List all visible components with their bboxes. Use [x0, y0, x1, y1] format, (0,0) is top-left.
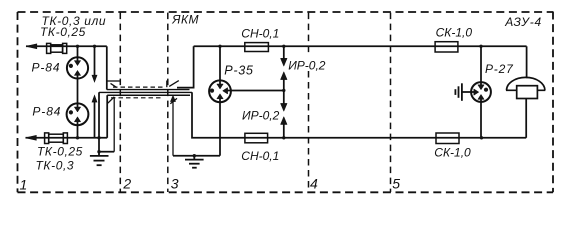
arrester P-35 (three electrode)	[209, 80, 231, 102]
svg-text:Р-84: Р-84	[32, 105, 61, 119]
heat coil TK bottom (fuse with end caps)	[45, 133, 68, 144]
arrester P-84 (upper)	[67, 46, 88, 107]
svg-text:ТК-0,25: ТК-0,25	[37, 144, 83, 158]
node: top wire / arrester P-35	[218, 45, 221, 48]
spark gap IR-0,2 upper	[281, 46, 288, 90]
section divider 3|4	[308, 13, 310, 192]
svg-text:Р-84: Р-84	[32, 60, 61, 74]
fuse SN-0,1 bottom	[245, 133, 268, 143]
wire: stub with up arrow (to station, bottom)	[94, 102, 96, 138]
wire: down to P-35	[219, 46, 221, 85]
wire: top-left corner down into cable	[106, 46, 108, 89]
svg-text:ИР-0,2: ИР-0,2	[242, 108, 280, 122]
cable shield lower-right termination with arrow	[172, 99, 174, 156]
svg-text:2: 2	[122, 176, 131, 192]
node: top wire / down arrow	[93, 45, 96, 48]
section frame outer dashed border	[18, 12, 554, 193]
node: top wire / spark gap column	[282, 45, 285, 48]
svg-text:СК-1,0: СК-1,0	[436, 26, 473, 40]
wire: top line section 3-5	[194, 45, 527, 47]
ground bus section 3	[173, 155, 220, 157]
svg-text:ТК-0,25: ТК-0,25	[40, 25, 86, 39]
spark gap IR-0,2 lower	[281, 90, 288, 137]
svg-text:СН-0,1: СН-0,1	[241, 26, 279, 40]
arrow to line (left, top)	[26, 44, 37, 49]
svg-text:1: 1	[20, 177, 28, 193]
heat coil TK top (fuse with end caps)	[47, 43, 67, 53]
svg-text:4: 4	[310, 175, 318, 191]
cable pair wire c (lower row)	[107, 94, 190, 96]
wire: cable to top line of YAKM	[177, 46, 194, 87]
wire: bottom line section 1	[26, 137, 108, 139]
wire: stub with down arrow (to station, top)	[94, 46, 96, 75]
ground section 1	[90, 152, 109, 166]
cable shield lower (dashed)	[111, 97, 161, 99]
section divider 4|5	[390, 13, 392, 192]
arrester P-27 (three electrode)	[471, 82, 491, 102]
arrow to line (left, bottom)	[26, 135, 37, 140]
wire: down to P-27	[480, 46, 482, 86]
fuse SK-1,0 top	[435, 42, 458, 52]
cable shield upper-left termination	[108, 80, 121, 82]
svg-text:ИР-0,2: ИР-0,2	[288, 58, 326, 72]
ground link section 1	[99, 151, 114, 153]
wire: top line section 1	[26, 45, 107, 47]
wire: bottom line section 3-5	[192, 92, 526, 138]
wire: P-35 bottom to ground bus	[219, 99, 221, 156]
cable shield upper (dashed)	[113, 86, 166, 88]
node: bottom wire / arrester P-84	[76, 136, 79, 139]
node: top wire / arrester P-84	[76, 45, 79, 48]
section divider 1|2	[119, 13, 121, 192]
wire: P-27 to side ground	[462, 91, 474, 93]
label IR-0,2 upper	[288, 58, 328, 72]
svg-text:СК-1,0: СК-1,0	[434, 146, 471, 160]
node: bottom wire / cable pair wire	[97, 136, 100, 139]
cable pair wire c left drop	[106, 95, 108, 138]
svg-text:АЗУ-4: АЗУ-4	[504, 15, 542, 29]
ground section 3	[185, 156, 204, 168]
wire: P-27 bottom to bottom line	[480, 99, 482, 138]
node: top wire / arrester P-27	[479, 45, 482, 48]
cable pair wire a (upper row)	[107, 89, 190, 91]
svg-text:Р-35: Р-35	[224, 64, 254, 78]
wire: P-35 middle electrode to spark gaps	[227, 90, 283, 92]
arrester P-84 (lower)	[67, 103, 89, 137]
svg-text:Р-27: Р-27	[485, 62, 514, 76]
svg-text:ТК-0,3: ТК-0,3	[36, 158, 75, 172]
telephone receiver	[506, 77, 545, 98]
wire: telephone to bottom line	[525, 99, 527, 138]
cable pair wire b left drop to bottom wire and ground	[98, 92, 100, 151]
svg-text:5: 5	[392, 175, 400, 191]
section divider 2|3	[167, 13, 169, 192]
svg-text:3: 3	[171, 176, 179, 192]
cable shield upper-right termination	[166, 81, 168, 88]
fuse SK-1,0 bottom	[436, 133, 459, 144]
cable pair wire b (middle row)	[99, 91, 192, 93]
wire: top line corner down to telephone	[526, 46, 528, 78]
ground (sideways) at P-27	[455, 83, 462, 101]
svg-text:СН-0,1: СН-0,1	[241, 149, 279, 163]
cable shield lower-left termination	[108, 97, 114, 103]
node: middle line / spark gap column	[282, 89, 285, 92]
fuse SN-0,1 top	[245, 43, 269, 52]
node: bottom wire / spark gap column	[282, 136, 285, 139]
svg-text:ЯКМ: ЯКМ	[171, 13, 199, 27]
